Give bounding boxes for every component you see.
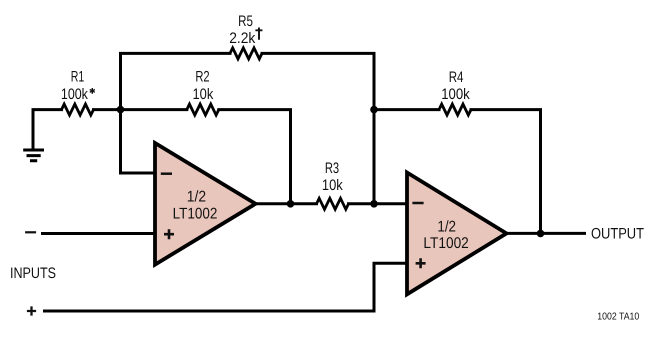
svg-text:10k: 10k	[322, 177, 343, 194]
svg-text:100k: 100k	[61, 86, 88, 103]
svg-text:R2: R2	[195, 69, 209, 86]
op-amp U2	[407, 173, 507, 295]
node plus input sign	[27, 306, 36, 315]
resistor R2 zigzag	[187, 104, 219, 115]
svg-text:1/2: 1/2	[187, 188, 206, 205]
svg-text:LT1002: LT1002	[173, 206, 218, 223]
wire ground stub and R1 row	[33, 110, 291, 204]
svg-text:LT1002: LT1002	[423, 235, 468, 252]
svg-text:1/2: 1/2	[437, 218, 456, 235]
svg-text:R3: R3	[325, 160, 339, 177]
resistor R3 zigzag	[317, 198, 349, 209]
svg-text:R1: R1	[71, 69, 85, 86]
svg-text:R5: R5	[238, 13, 253, 30]
op-amp U1	[155, 143, 256, 265]
wire top feedback loop with R5	[121, 53, 375, 203]
svg-text:10k: 10k	[193, 86, 214, 103]
svg-text:2.2k: 2.2k	[229, 30, 255, 47]
resistor R5 dagger note	[255, 28, 262, 40]
resistor R5 zigzag	[230, 48, 262, 59]
wire op1 output to op2 inverting input	[256, 202, 408, 205]
resistor R1 zigzag	[62, 104, 94, 115]
resistor R1 asterisk note	[90, 88, 95, 94]
wire R4 feedback row	[374, 110, 541, 234]
svg-text:R4: R4	[449, 69, 464, 86]
resistor R4 zigzag	[439, 104, 471, 115]
wire output	[507, 232, 585, 235]
svg-text:OUTPUT: OUTPUT	[591, 225, 644, 242]
node minus input sign	[25, 231, 36, 233]
ground	[23, 150, 44, 161]
wire plus input net	[45, 263, 408, 311]
svg-text:100k: 100k	[441, 86, 470, 103]
node junction dots	[117, 106, 545, 237]
svg-text:INPUTS: INPUTS	[10, 265, 56, 282]
wire op1 plus input from minus terminal	[43, 232, 156, 235]
svg-text:1002 TA10: 1002 TA10	[597, 311, 639, 322]
